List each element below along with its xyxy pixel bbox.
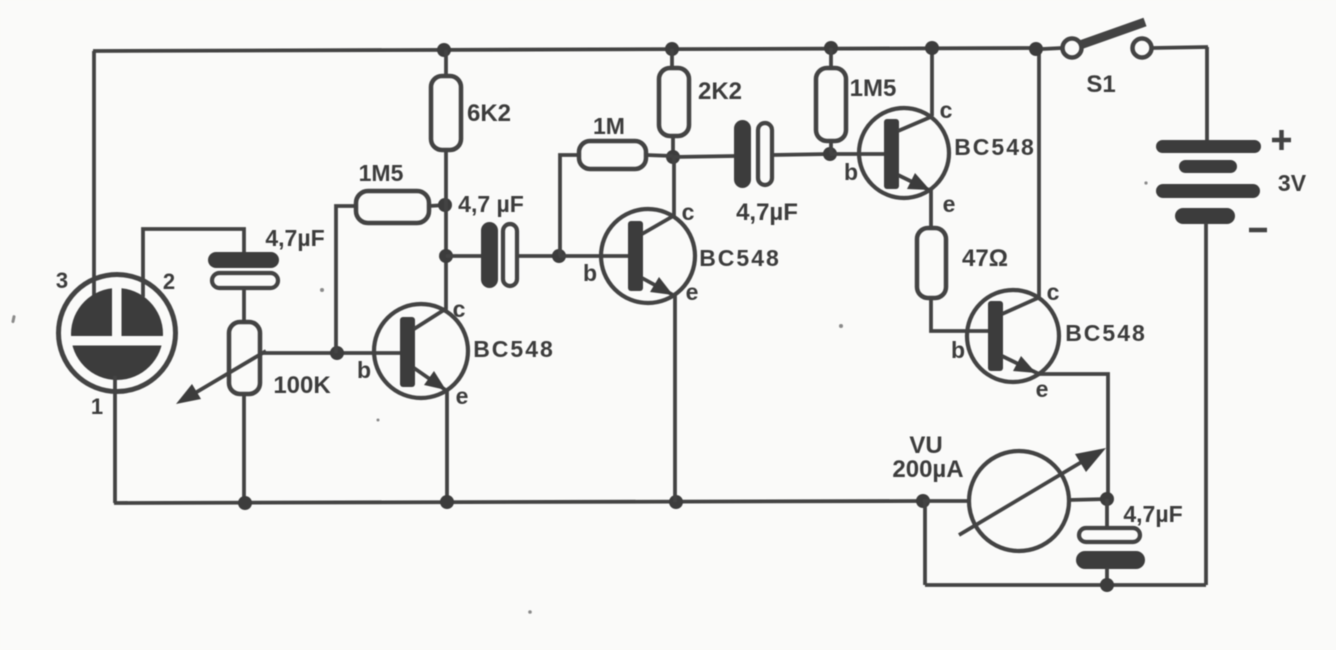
wire supply to 2K2: [670, 49, 674, 70]
wire 1M right lead: [646, 155, 673, 156]
switch S1: [1042, 22, 1208, 58]
100K wiper wire to Q1 base: [263, 351, 404, 355]
junction dot wiper / feedback node: [330, 346, 344, 360]
resistor R2 1M5 body: [356, 191, 429, 223]
svg-text:c: c: [940, 97, 953, 123]
svg-text:2K2: 2K2: [698, 78, 742, 105]
junction dot bottom return / C4: [1100, 578, 1114, 592]
svg-text:b: b: [583, 260, 597, 286]
wire node to C2: [446, 254, 482, 258]
junction dot ground/Q2 emitter: [669, 495, 683, 509]
microphone MIC1 electrodes: [60, 283, 176, 380]
wire Q2 base: [559, 254, 632, 258]
svg-text:100K: 100K: [273, 372, 331, 399]
svg-text:1M5: 1M5: [359, 160, 404, 186]
wire ground node to VU meter: [923, 499, 970, 503]
svg-text:6K2: 6K2: [467, 100, 511, 127]
microphone MIC1 outer circle: [59, 275, 176, 392]
capacitor C3 positive plate: [734, 120, 751, 188]
wire C2 to Q2 base node: [517, 254, 560, 258]
wire 2K2 bottom to Q2 collector node: [671, 134, 675, 158]
wire 100K bottom to ground rail: [242, 394, 246, 503]
battery B1: [1156, 140, 1261, 224]
capacitor C2 negative plate: [503, 224, 517, 286]
transistor Q2 BC548: [601, 209, 695, 303]
junction dot top rail / 6K2: [437, 43, 451, 57]
battery minus label: [1249, 228, 1267, 233]
svg-text:1: 1: [91, 394, 103, 419]
junction dot Q3 base node: [823, 147, 837, 161]
wire battery negative down right side: [1204, 223, 1208, 585]
svg-text:S1: S1: [1086, 71, 1115, 98]
svg-text:e: e: [686, 279, 699, 305]
wire Q3 base: [830, 152, 886, 156]
svg-text:c: c: [682, 199, 695, 225]
svg-text:4,7µF: 4,7µF: [736, 199, 798, 226]
paper speckles: [11, 181, 1147, 613]
wire ground branch down: [923, 501, 927, 585]
junction dot Q2 collector node: [666, 150, 680, 164]
wire Q3 collector to top rail: [930, 48, 934, 116]
wire supply to 1M5 R5: [829, 48, 833, 70]
junction dot VU / C4 node: [1100, 492, 1114, 506]
capacitor C3 negative plate: [758, 123, 772, 185]
junction dot R2/R3 node: [438, 198, 452, 212]
junction dot top rail / 1M5 R5: [824, 41, 838, 55]
100K wiper arrow: [190, 351, 266, 396]
svg-text:BC548: BC548: [473, 336, 555, 362]
transistor Q4 BC548: [967, 290, 1059, 382]
capacitor C2 positive plate: [481, 222, 498, 288]
wire node down to C4: [1105, 499, 1109, 529]
svg-text:47Ω: 47Ω: [962, 245, 1008, 272]
wire switch to battery positive: [1205, 47, 1209, 141]
wire 1M5 R2 left lead down to base node: [336, 206, 356, 353]
wire Q3 emitter to 47R: [929, 190, 933, 230]
wire Q4 collector to top rail: [1037, 50, 1041, 297]
wire C3 to Q3 base node: [772, 154, 830, 155]
capacitor C1 negative plate: [212, 273, 278, 288]
wire Q4 emitter to VU node: [1039, 374, 1108, 499]
resistor R4 1M body: [579, 141, 646, 169]
capacitor C4 negative plate: [1079, 528, 1140, 542]
wire C1 to 100K top: [242, 288, 246, 323]
svg-text:3: 3: [56, 268, 68, 293]
wire C4 to bottom return: [1105, 568, 1109, 585]
svg-text:BC548: BC548: [954, 134, 1036, 160]
svg-text:3V: 3V: [1278, 170, 1307, 196]
wire 6K2 bottom to Q1 collector: [444, 148, 448, 309]
svg-text:b: b: [357, 357, 371, 383]
wire supply to 6K2: [444, 50, 448, 78]
capacitor C1 positive plate: [208, 252, 279, 268]
bottom right return wire: [925, 583, 1206, 587]
junction dot C2 / 1M node: [552, 249, 566, 263]
svg-text:4,7 µF: 4,7 µF: [458, 191, 524, 217]
wire VU meter to emitter node: [1069, 499, 1108, 500]
battery plus label: [1272, 130, 1291, 150]
wire top supply rail: [93, 48, 1036, 51]
wire 47R to Q4 base: [931, 297, 990, 331]
VU meter needle: [959, 451, 1100, 535]
wire 1M5 right lead: [429, 205, 446, 206]
transistor Q1 BC548: [374, 304, 468, 398]
potentiometer P1 100K body: [229, 322, 260, 394]
wire 1M left lead down to Q2 base node: [560, 155, 579, 256]
wire Q2 emitter to ground rail: [673, 294, 677, 502]
junction dot top rail / Q3 collector: [925, 41, 939, 55]
svg-text:c: c: [453, 296, 466, 322]
resistor R5 1M5 body: [816, 68, 846, 141]
resistor R7 47R body: [917, 228, 946, 298]
wire mic pin 2 to capacitor C1: [143, 229, 244, 297]
junction dot collector node / C2: [439, 249, 453, 263]
resistor R6 2K2 body: [659, 68, 689, 136]
junction dot ground/Q1 emitter: [440, 495, 454, 509]
junction dot top rail / 2K2: [665, 42, 679, 56]
transistor Q3 BC548: [859, 108, 949, 198]
svg-text:e: e: [1036, 376, 1049, 402]
mic pin 1 wire to ground rail: [113, 376, 117, 503]
wire node to C3: [673, 156, 735, 157]
svg-text:4,7µF: 4,7µF: [265, 225, 324, 251]
svg-text:b: b: [844, 159, 858, 185]
svg-text:BC548: BC548: [699, 245, 781, 271]
capacitor C4 positive plate: [1076, 551, 1145, 569]
svg-text:b: b: [951, 337, 965, 363]
resistor R3 6K2 body: [431, 76, 461, 150]
svg-text:2: 2: [163, 269, 175, 294]
svg-text:BC548: BC548: [1065, 320, 1147, 346]
junction dot top rail / switch node: [1029, 42, 1043, 56]
svg-text:VU: VU: [909, 432, 942, 459]
wire left rail down to mic pin 3: [92, 51, 96, 297]
junction dot ground/100K: [238, 496, 252, 510]
svg-text:1M5: 1M5: [850, 75, 897, 102]
wire Q2 collector: [672, 157, 676, 216]
VU meter M1: [969, 451, 1069, 551]
wire Q1 emitter to ground rail: [445, 389, 449, 503]
svg-text:200µA: 200µA: [892, 456, 963, 483]
svg-text:e: e: [943, 191, 956, 217]
svg-text:1M: 1M: [593, 113, 625, 139]
wire 1M5 bottom to Q3 base node: [829, 139, 833, 154]
svg-text:c: c: [1047, 279, 1060, 305]
junction dot ground/VU branch: [916, 494, 930, 508]
ground rail wire: [114, 501, 923, 503]
svg-text:e: e: [456, 383, 469, 409]
svg-text:4,7µF: 4,7µF: [1123, 501, 1182, 527]
